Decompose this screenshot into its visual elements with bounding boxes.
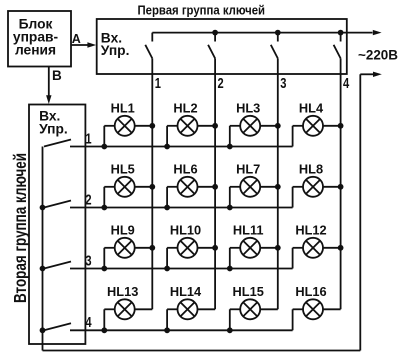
junction column 4 / lamp row 1	[338, 123, 344, 129]
switch S3 (first group)	[271, 33, 278, 59]
svg-text:HL8: HL8	[299, 162, 323, 177]
switch S4 (first group)	[334, 33, 341, 59]
right return bus wire	[359, 74, 361, 350]
lamp HL9	[115, 238, 135, 258]
switch S5 (second group)	[44, 140, 71, 147]
junction row 3 / HL11 left lead	[227, 266, 233, 272]
svg-text:Первая группа ключей: Первая группа ключей	[138, 4, 266, 18]
svg-text:~220В: ~220В	[358, 47, 398, 62]
junction row 1 / HL1 left lead	[101, 144, 107, 150]
lamp HL7	[240, 177, 260, 197]
wire HL10 right lead to column 2	[198, 247, 216, 249]
row label 1	[85, 130, 91, 147]
junction on top bus, column 3	[275, 30, 281, 36]
junction column 2 / lamp row 3	[212, 245, 218, 251]
svg-text:B: B	[52, 68, 62, 83]
second ~220V arrow wire	[360, 72, 382, 77]
second key group box	[29, 105, 85, 345]
label ~220В	[358, 47, 398, 62]
wire HL11 right lead to column 3	[260, 247, 278, 249]
svg-text:4: 4	[343, 75, 350, 92]
control block "Блок управления"	[8, 11, 71, 67]
title: Первая группа ключей	[138, 4, 266, 18]
junction column 2 / lamp row 1	[212, 123, 218, 129]
lamp HL2	[178, 116, 198, 136]
column label 3	[280, 75, 286, 92]
wire HL15 right lead to column 3	[260, 308, 278, 310]
svg-text:HL11: HL11	[233, 223, 264, 238]
label HL15	[233, 284, 264, 299]
junction column 4 / lamp row 2	[338, 184, 344, 190]
switch S2 (first group)	[208, 33, 215, 59]
label HL14	[170, 284, 202, 299]
svg-text:HL6: HL6	[173, 162, 197, 177]
wire HL3 right lead to column 3	[260, 125, 278, 127]
column 3 wire	[277, 58, 279, 309]
wire HL13 right lead to column 1	[135, 308, 153, 310]
svg-text:HL7: HL7	[236, 162, 260, 177]
wire HL6 left lead to row 2	[167, 187, 177, 208]
junction on left bus, row 2	[40, 205, 46, 211]
lamp HL3	[240, 116, 260, 136]
junction on left bus, row 3	[40, 266, 46, 272]
second group input label Вх. Упр.	[39, 109, 68, 137]
lamp HL14	[178, 299, 198, 319]
svg-text:Упр.: Упр.	[101, 43, 130, 58]
svg-text:HL2: HL2	[173, 101, 197, 116]
junction column 1 / lamp row 3	[149, 245, 155, 251]
label HL11	[233, 223, 264, 238]
column label 2	[218, 75, 224, 92]
svg-text:HL12: HL12	[295, 223, 326, 238]
wire HL14 right lead to column 2	[198, 308, 216, 310]
wire HL4 left lead to row 1	[293, 126, 303, 147]
label HL9	[111, 223, 135, 238]
junction column 3 / lamp row 3	[275, 245, 281, 251]
column label 4	[343, 75, 350, 92]
svg-text:ления: ления	[15, 43, 56, 58]
lamp HL1	[115, 116, 135, 136]
junction row 2 / HL5 left lead	[101, 205, 107, 211]
junction row 2 / HL7 left lead	[227, 205, 233, 211]
label HL1	[111, 101, 135, 116]
label HL12	[295, 223, 326, 238]
switch S1 (first group)	[145, 33, 152, 59]
svg-text:HL3: HL3	[236, 101, 260, 116]
svg-text:3: 3	[280, 75, 286, 92]
wire HL5 right lead to column 1	[135, 186, 153, 188]
wire HL10 left lead to row 3	[167, 248, 177, 269]
label HL16	[295, 284, 326, 299]
wire HL15 left lead to row 4	[230, 309, 240, 330]
left bus wire (second group common)	[42, 147, 44, 351]
label HL3	[236, 101, 260, 116]
node label A	[72, 32, 81, 46]
node label B	[52, 68, 62, 83]
wire HL16 left lead to row 4	[293, 309, 303, 330]
switch S8 (second group)	[44, 323, 71, 330]
svg-text:HL16: HL16	[295, 284, 326, 299]
svg-text:1: 1	[155, 75, 161, 92]
label HL6	[173, 162, 197, 177]
svg-text:1: 1	[85, 130, 91, 147]
wire HL7 left lead to row 2	[230, 187, 240, 208]
first group input label Вх. Упр.	[101, 31, 130, 58]
svg-text:HL1: HL1	[111, 101, 135, 116]
label HL2	[173, 101, 197, 116]
svg-text:HL5: HL5	[111, 162, 135, 177]
svg-text:HL10: HL10	[170, 223, 201, 238]
lamp HL12	[303, 238, 323, 258]
lamp HL13	[115, 299, 135, 319]
junction row 2 / HL6 left lead	[164, 205, 170, 211]
svg-text:2: 2	[218, 75, 224, 92]
label HL4	[299, 101, 324, 116]
wire A: control block to first key group, arrow right	[71, 42, 96, 47]
junction on top bus, column 4	[338, 30, 344, 36]
row 2 wire	[70, 207, 293, 209]
column 1 wire	[151, 58, 153, 309]
column label 1	[155, 75, 161, 92]
lamp HL6	[178, 177, 198, 197]
row label 2	[85, 191, 91, 208]
lamp HL5	[115, 177, 135, 197]
switch S6 (second group)	[44, 201, 71, 208]
wire HL8 right lead to column 4	[323, 186, 341, 188]
svg-text:HL15: HL15	[233, 284, 264, 299]
junction row 4 / HL13 left lead	[101, 327, 107, 333]
bottom return bus wire	[43, 350, 361, 352]
row label 4	[85, 314, 92, 331]
label HL5	[111, 162, 135, 177]
row 1 wire	[70, 146, 293, 148]
label HL10	[170, 223, 201, 238]
lamp HL16	[303, 299, 323, 319]
junction column 1 / lamp row 2	[149, 184, 155, 190]
svg-text:Упр.: Упр.	[39, 122, 68, 137]
svg-text:Вторая группа ключей: Вторая группа ключей	[10, 153, 30, 303]
top bus wire (~220V row)	[152, 30, 381, 35]
junction column 3 / lamp row 2	[275, 184, 281, 190]
svg-text:3: 3	[85, 252, 91, 269]
svg-text:HL13: HL13	[107, 284, 138, 299]
junction column 1 / lamp row 1	[149, 123, 155, 129]
wire HL8 left lead to row 2	[293, 187, 303, 208]
wire HL7 right lead to column 3	[260, 186, 278, 188]
lamp HL11	[240, 238, 260, 258]
wire HL14 left lead to row 4	[167, 309, 177, 330]
label HL8	[299, 162, 323, 177]
wire HL2 right lead to column 2	[198, 125, 216, 127]
wire HL2 left lead to row 1	[167, 126, 177, 147]
wire HL11 left lead to row 3	[230, 248, 240, 269]
wire HL5 left lead to row 2	[104, 187, 114, 208]
svg-text:HL14: HL14	[170, 284, 202, 299]
wire HL3 left lead to row 1	[230, 126, 240, 147]
svg-text:HL4: HL4	[299, 101, 324, 116]
wire HL9 left lead to row 3	[104, 248, 114, 269]
svg-text:HL9: HL9	[111, 223, 135, 238]
junction on top bus, column 2	[212, 30, 218, 36]
label HL7	[236, 162, 260, 177]
junction row 3 / HL9 left lead	[101, 266, 107, 272]
wire HL1 right lead to column 1	[135, 125, 153, 127]
junction column 4 / lamp row 3	[338, 245, 344, 251]
junction row 1 / HL3 left lead	[227, 144, 233, 150]
junction column 3 / lamp row 1	[275, 123, 281, 129]
column 2 wire	[214, 58, 216, 309]
switch S7 (second group)	[44, 262, 71, 269]
junction row 4 / HL15 left lead	[227, 327, 233, 333]
row 3 wire	[70, 268, 293, 270]
lamp HL15	[240, 299, 260, 319]
junction row 4 / HL14 left lead	[164, 327, 170, 333]
svg-text:2: 2	[85, 191, 91, 208]
lamp HL8	[303, 177, 323, 197]
lamp HL10	[178, 238, 198, 258]
row label 3	[85, 252, 91, 269]
lamp HL4	[303, 116, 323, 136]
junction row 1 / HL2 left lead	[164, 144, 170, 150]
row 4 wire	[70, 329, 293, 331]
first key group box	[97, 19, 347, 74]
title: Вторая группа ключей (rotated)	[10, 153, 30, 303]
wire HL12 right lead to column 4	[323, 247, 341, 249]
wire B: control block to second key group, arrow down	[46, 67, 51, 105]
wire HL13 left lead to row 4	[104, 309, 114, 330]
label HL13	[107, 284, 138, 299]
svg-text:A: A	[72, 32, 81, 46]
column 4 wire	[340, 58, 342, 309]
junction on left bus, row 4	[40, 327, 46, 333]
svg-text:4: 4	[85, 314, 92, 331]
wire HL1 left lead to row 1	[104, 126, 114, 147]
wire HL9 right lead to column 1	[135, 247, 153, 249]
wire HL16 right lead to column 4	[323, 308, 341, 310]
wire HL4 right lead to column 4	[323, 125, 341, 127]
wire HL12 left lead to row 3	[293, 248, 303, 269]
junction row 3 / HL10 left lead	[164, 266, 170, 272]
junction column 2 / lamp row 2	[212, 184, 218, 190]
wire HL6 right lead to column 2	[198, 186, 216, 188]
